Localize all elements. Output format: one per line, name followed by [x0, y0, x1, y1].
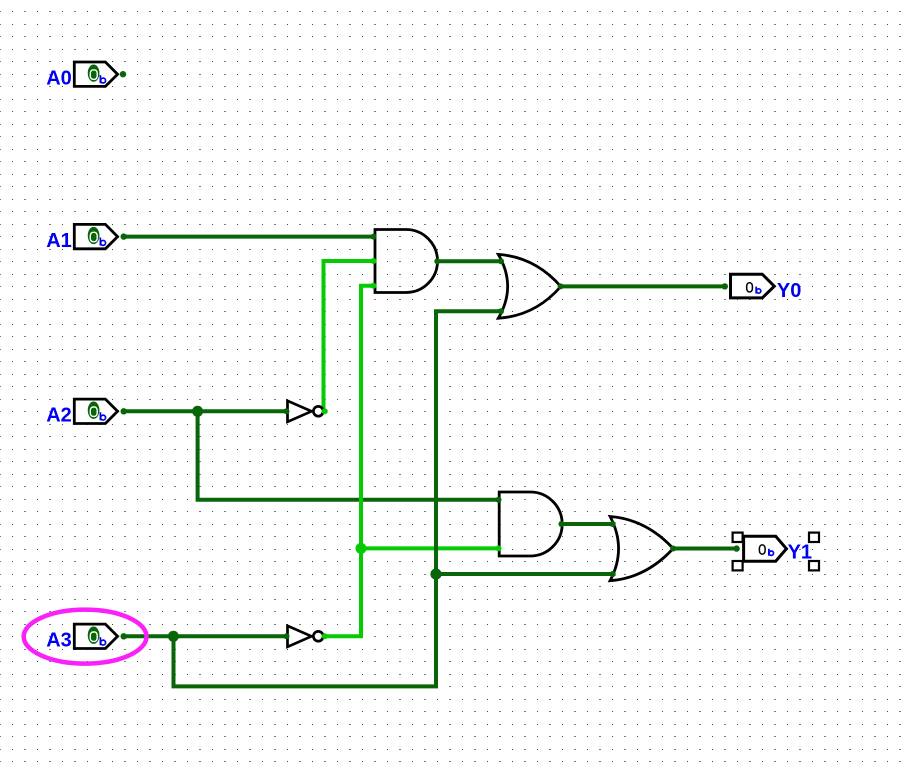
value label 0b of A2 — [88, 402, 100, 419]
selection handle top-left of Y1 — [733, 533, 743, 542]
selection handle top-right of Y1 — [809, 533, 819, 542]
value label 0b of A3 — [88, 627, 100, 644]
value label 0b of Y0 — [747, 283, 753, 292]
wire AND1 output to OR1 input — [437, 259, 503, 263]
wire A3 branch to OR2 input — [436, 572, 616, 576]
label A3 — [46, 630, 72, 652]
wire A3 to NOT2 input — [124, 634, 288, 638]
label A1 — [46, 230, 72, 252]
label A2 — [46, 405, 72, 427]
wire NOT2 branch to AND2 input (high) — [361, 546, 499, 550]
svg-text:A2: A2 — [46, 405, 72, 427]
wire A1 to AND1 input — [124, 235, 374, 239]
wire A2 branch to AND2 input — [198, 411, 499, 500]
junction node NOT2 net at AND2 row — [356, 543, 367, 554]
wire A3 branch bottom rail to OR1 input — [174, 311, 504, 686]
highlight ellipse around A3 — [24, 610, 147, 664]
not-gate NOT2 — [284, 626, 328, 647]
wire A2 to NOT1 input — [124, 409, 288, 413]
junction node A3 net at OR2 row — [430, 569, 441, 580]
wire AND2 output to OR2 input — [561, 522, 615, 526]
wire OR2 output to Y1 — [673, 547, 736, 551]
label Y0 — [777, 280, 801, 302]
wire NOT2 output to AND1 input (high) — [325, 286, 374, 637]
value label 0b of A0 — [88, 64, 100, 81]
input pin A1 — [74, 224, 127, 248]
output pin Y0 — [722, 274, 775, 298]
or-gate OR1 — [498, 254, 564, 318]
output pin Y1 — [733, 536, 786, 561]
wire OR1 output to Y0 — [561, 284, 725, 288]
input pin A2 — [74, 399, 127, 423]
value label 0b of A1 — [88, 227, 100, 244]
label A0 — [46, 67, 72, 89]
junction node A3 branch — [168, 631, 179, 642]
svg-text:A3: A3 — [46, 630, 72, 652]
selection handle bottom-right of Y1 — [809, 561, 819, 570]
and-gate AND2 — [496, 492, 565, 556]
wire NOT1 output to AND1 input (high) — [324, 261, 375, 411]
svg-text:A1: A1 — [46, 230, 72, 252]
svg-text:Y0: Y0 — [777, 280, 801, 302]
label Y1 — [788, 541, 812, 563]
input pin A0 — [74, 62, 126, 86]
or-gate OR2 — [610, 517, 677, 581]
not-gate NOT1 — [284, 401, 328, 422]
selection handle bottom-left of Y1 — [733, 561, 743, 570]
and-gate AND1 — [371, 230, 441, 293]
svg-text:A0: A0 — [46, 67, 72, 89]
input pin A3 — [74, 624, 127, 648]
value label 0b of Y1 — [759, 545, 765, 554]
junction node A2 branch — [192, 406, 203, 417]
